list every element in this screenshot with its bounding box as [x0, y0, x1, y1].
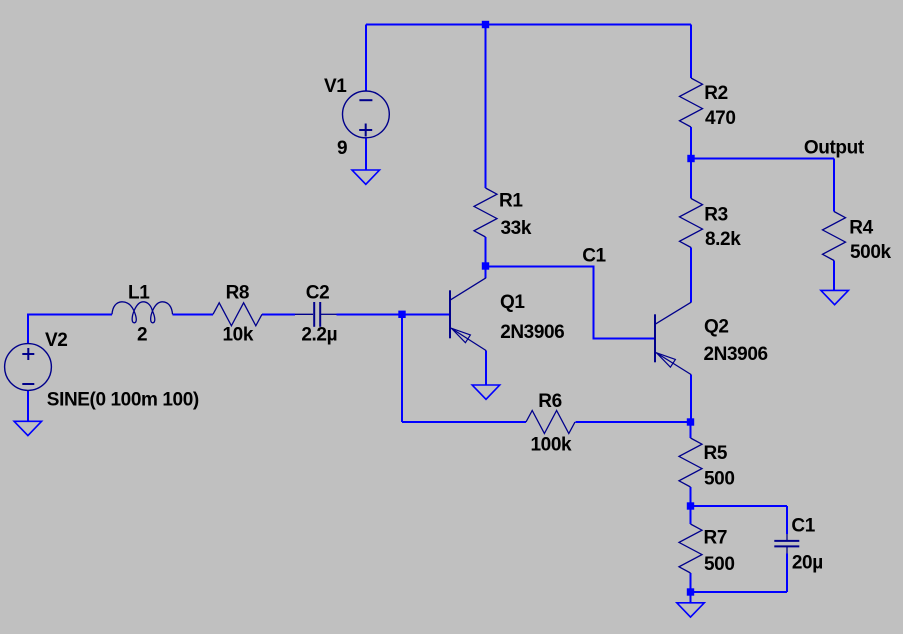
- svg-text:500k: 500k: [850, 242, 892, 263]
- wire V1 to ground: [365, 139, 367, 171]
- wire R8 to C2: [262, 313, 295, 315]
- resistor R7: [679, 524, 735, 575]
- svg-text:R1: R1: [499, 191, 523, 212]
- wire node to Q1 collector: [485, 266, 487, 278]
- resistor R3: [680, 199, 742, 250]
- svg-text:R3: R3: [704, 205, 728, 226]
- wire node C1 run: [486, 267, 656, 339]
- svg-text:2N3906: 2N3906: [704, 344, 768, 365]
- wire R6 to emitter node: [576, 421, 691, 423]
- wire R5 to node: [690, 487, 692, 506]
- junction node R1 bottom: [482, 262, 489, 269]
- wire top rail: [366, 24, 691, 26]
- wire R1 top: [485, 25, 487, 189]
- resistor R1: [474, 188, 532, 239]
- wire V2 bottom: [27, 391, 29, 422]
- ground under V1: [352, 170, 380, 184]
- wire R1 bottom to node: [485, 237, 487, 266]
- svg-text:R4: R4: [849, 218, 873, 239]
- wire R2 top: [690, 25, 692, 79]
- resistor R2: [680, 78, 736, 129]
- svg-text:2.2µ: 2.2µ: [301, 324, 337, 345]
- wire Q1 base: [402, 313, 450, 315]
- junction node output: [687, 155, 694, 162]
- junction node emitter Q2: [687, 418, 694, 425]
- svg-text:9: 9: [337, 138, 347, 159]
- ground bottom: [677, 603, 705, 617]
- resistor R6: [526, 391, 575, 456]
- junction node R7 C1 ground: [687, 588, 694, 595]
- svg-text:500: 500: [704, 554, 735, 575]
- wire R3 top: [690, 159, 692, 199]
- svg-text:100k: 100k: [531, 435, 573, 456]
- junction node top rail: [482, 21, 489, 28]
- svg-text:R7: R7: [704, 528, 728, 549]
- transistor Q1: [450, 278, 564, 351]
- svg-text:10k: 10k: [223, 324, 254, 345]
- svg-text:470: 470: [705, 108, 736, 129]
- resistor R4: [823, 212, 892, 264]
- transistor Q2: [655, 302, 768, 374]
- wire node to C1 cap: [691, 505, 788, 507]
- voltage source V1: [324, 76, 389, 159]
- resistor R8: [213, 283, 262, 346]
- svg-text:R6: R6: [538, 391, 562, 412]
- wire output rail: [691, 158, 834, 160]
- wire node to R7: [690, 506, 692, 524]
- ground under R4: [821, 290, 849, 304]
- svg-text:20µ: 20µ: [792, 553, 823, 574]
- capacitor C2: [295, 283, 337, 346]
- svg-text:R2: R2: [704, 83, 728, 104]
- wire C1 top lead: [786, 506, 788, 534]
- wire V2 top to L1: [28, 314, 112, 344]
- svg-text:500: 500: [704, 468, 735, 489]
- capacitor C1: [774, 516, 822, 574]
- ground under Q1 emitter: [472, 385, 500, 399]
- junction node R5 R7 C1: [687, 502, 694, 509]
- svg-text:Q1: Q1: [500, 292, 525, 313]
- svg-text:Q2: Q2: [704, 316, 729, 337]
- wire L1 to R8: [173, 313, 214, 315]
- wire C1 bottom to node: [691, 591, 788, 593]
- svg-text:V1: V1: [324, 76, 347, 97]
- svg-text:C1: C1: [791, 516, 815, 537]
- junction node input: [398, 311, 405, 318]
- svg-text:R5: R5: [704, 443, 728, 464]
- voltage source V2: [5, 330, 199, 410]
- wire C2 to node: [337, 313, 403, 315]
- wire R2 bottom: [690, 127, 692, 159]
- svg-text:8.2k: 8.2k: [705, 229, 741, 250]
- wire node down to bottom rail: [401, 314, 403, 422]
- svg-text:2N3906: 2N3906: [500, 322, 564, 343]
- wire Q1 emitter down: [485, 351, 487, 386]
- resistor R5: [679, 438, 735, 489]
- wire node to R5: [690, 422, 692, 438]
- wire C1 bottom lead: [786, 554, 788, 593]
- svg-text:2: 2: [137, 324, 147, 345]
- inductor L1: [112, 283, 173, 346]
- wire Q2 emitter down: [690, 375, 692, 423]
- wire R4 top: [833, 159, 835, 212]
- wire R3 to Q2 collector: [690, 248, 692, 303]
- svg-text:Output: Output: [804, 137, 865, 158]
- wire R7 bottom: [690, 573, 692, 592]
- wire V1 top: [365, 25, 367, 92]
- svg-text:SINE(0 100m 100): SINE(0 100m 100): [47, 389, 199, 410]
- svg-text:L1: L1: [128, 283, 150, 304]
- svg-text:33k: 33k: [501, 218, 532, 239]
- svg-text:R8: R8: [226, 283, 250, 304]
- svg-text:C2: C2: [306, 283, 330, 304]
- svg-text:C1: C1: [582, 246, 606, 267]
- wire bottom rail to R6: [402, 421, 526, 423]
- wire node to ground: [690, 592, 692, 603]
- wire R4 bottom to ground: [833, 261, 835, 291]
- svg-text:V2: V2: [45, 330, 67, 351]
- ground under V2: [14, 421, 41, 435]
